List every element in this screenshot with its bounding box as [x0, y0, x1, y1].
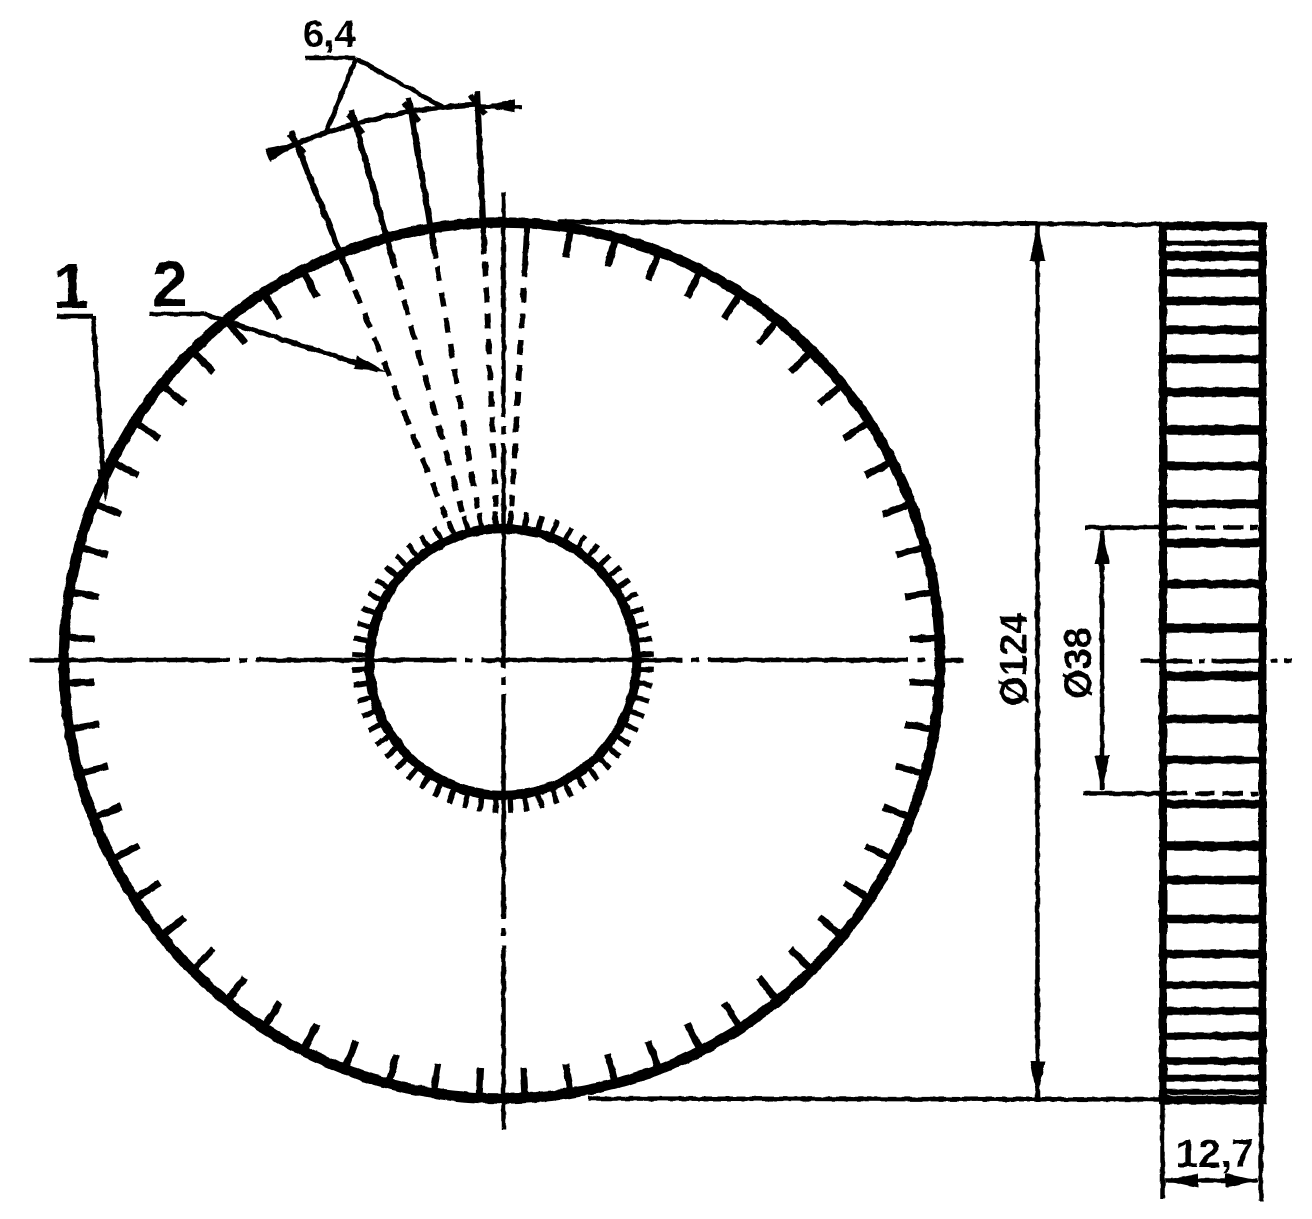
12,7 dimension line: [1165, 1178, 1258, 1183]
Ø38 bottom arrow: [1095, 756, 1110, 792]
svg-text:12,7: 12,7: [1176, 1132, 1254, 1176]
label 1 leader line: [93, 316, 104, 487]
hidden hub line lower (dashed): [1167, 791, 1258, 796]
radial extension line b (dashed part): [397, 275, 462, 511]
radial extension line b (solid part): [352, 111, 395, 268]
outer disc circle (front view): [64, 223, 940, 1099]
radial extension line c (dashed part): [437, 267, 478, 509]
right arrow of 6,4 dimension: [481, 99, 515, 113]
radial extension line c (solid part): [409, 98, 436, 259]
inner hub teeth (60): [352, 511, 654, 813]
side view top edge: [1159, 222, 1267, 231]
Ø124 dimension line: [1035, 226, 1040, 1097]
svg-text:6,4: 6,4: [303, 14, 356, 56]
dimension arc for 6,4: [270, 105, 478, 156]
dimension arc right horizontal tail: [478, 107, 522, 108]
radial extension line e (dashed part): [512, 262, 526, 507]
left arrow of 6,4 dimension: [265, 142, 300, 162]
12,7 right extension line: [1259, 1100, 1264, 1201]
rim tick marks (60 minus 5 replaced by extension lines): [66, 229, 939, 1097]
label 2 arrow: [353, 356, 386, 373]
Ø38 lower extension line: [1083, 791, 1161, 796]
label 1 underline: [57, 314, 93, 319]
Ø38 upper extension line: [1085, 525, 1161, 530]
Ø124 top arrow: [1030, 223, 1045, 261]
horizontal centerline of disc: [30, 658, 963, 663]
label 6,4 leader underline: [305, 56, 356, 61]
12,7 right arrow: [1226, 1173, 1260, 1188]
vertical centerline of disc: [501, 192, 506, 1130]
label 2 leader line: [204, 314, 378, 370]
Ø124 bottom arrow: [1030, 1061, 1045, 1099]
Ø124 bottom extension line: [588, 1099, 1161, 1100]
leader to second gap: [356, 59, 445, 109]
horizontal centerline of side view: [1140, 659, 1292, 664]
side view tooth lines: [1166, 243, 1259, 1092]
label 2 underline: [150, 312, 204, 317]
svg-text:Ø38: Ø38: [1058, 627, 1100, 699]
inner hub circle: [370, 529, 637, 796]
12,7 left arrow: [1164, 1173, 1198, 1188]
radial extension line d (dashed part): [485, 261, 496, 506]
side view bottom edge: [1159, 1096, 1267, 1105]
label 1 arrow: [97, 469, 111, 501]
radial extension line a (solid part): [291, 131, 352, 282]
Ø124 top extension line: [558, 222, 1161, 225]
svg-text:1: 1: [53, 250, 89, 322]
side view left edge: [1159, 222, 1167, 1100]
radial extension line a (dashed part): [355, 290, 446, 518]
12,7 left extension line: [1160, 1100, 1165, 1199]
Ø38 dimension line: [1100, 530, 1105, 790]
slash marks at radial line crossings: [289, 95, 486, 153]
Ø38 top arrow: [1095, 529, 1110, 565]
hidden hub line upper (dashed): [1167, 525, 1258, 530]
svg-text:Ø124: Ø124: [994, 613, 1036, 706]
radial extension line e (solid part): [525, 220, 527, 263]
side view right edge: [1259, 222, 1267, 1104]
svg-text:2: 2: [152, 248, 188, 320]
leader to first gap: [326, 59, 356, 134]
radial extension line d (solid part): [477, 91, 484, 254]
